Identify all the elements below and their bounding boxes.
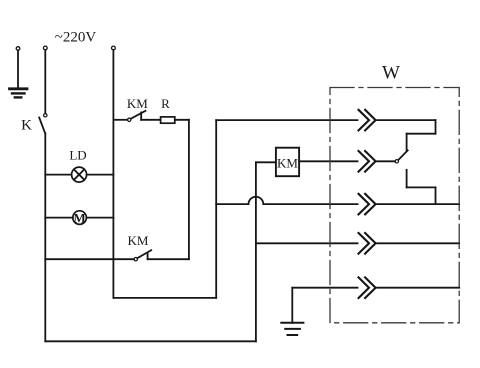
wire lamp row right — [87, 174, 114, 176]
connector arrow line3 — [359, 194, 376, 215]
wire left supply — [44, 50, 46, 114]
wire motor row right — [86, 217, 113, 219]
wire line2 left — [299, 160, 357, 162]
lamp LD — [72, 167, 87, 182]
coil KM feed corner — [255, 162, 257, 341]
wire neutral bottom run — [113, 297, 216, 299]
svg-text:R: R — [161, 96, 170, 111]
connector arrow line4 — [359, 233, 376, 254]
changeover switch in W — [395, 150, 408, 163]
wire line3 with hump — [216, 197, 357, 204]
wire line1 left — [216, 119, 357, 121]
wire left supply lower — [44, 134, 46, 342]
wire contact to R — [141, 119, 160, 121]
wire line2 right — [376, 160, 395, 162]
svg-text:K: K — [21, 118, 32, 134]
coil KM box — [276, 148, 299, 177]
svg-text:M: M — [73, 210, 85, 225]
connector arrow line1 — [359, 110, 376, 131]
svg-text:KM: KM — [127, 96, 148, 111]
ground (top-left) — [10, 47, 28, 98]
wire contact to corner — [148, 258, 189, 260]
svg-text:LD: LD — [69, 147, 86, 162]
lower throw contact — [406, 170, 408, 188]
svg-text:W: W — [382, 63, 400, 84]
W enclosure box — [330, 88, 459, 323]
terminal N — [112, 46, 116, 50]
wire line4 left — [256, 242, 358, 244]
wire motor row left — [45, 217, 73, 219]
wire line5 left — [292, 287, 357, 289]
wire line3 right — [376, 203, 460, 205]
wire R to corner — [175, 119, 189, 121]
connector arrow line2 — [359, 151, 376, 172]
wire to bottom ground — [291, 288, 293, 323]
connector arrow line5 — [359, 277, 376, 298]
svg-text:KM: KM — [277, 156, 298, 171]
wire lamp row left — [45, 174, 71, 176]
wire right supply — [112, 50, 114, 298]
wire line5 right — [376, 287, 460, 289]
motor M — [73, 210, 87, 225]
switch K — [39, 114, 47, 134]
ground (bottom) — [281, 323, 303, 335]
wire riser x216 — [215, 120, 217, 298]
wire bottom contact row — [45, 258, 134, 260]
svg-text:~220V: ~220V — [55, 30, 97, 46]
wire bottom bus — [45, 340, 256, 342]
contact KM (NO, top) — [128, 111, 146, 122]
wire line1 right — [376, 119, 436, 121]
svg-text:KM: KM — [128, 233, 149, 248]
wire line4 right — [376, 242, 460, 244]
wire line1 step down — [435, 120, 437, 134]
wire branch right vertical — [188, 120, 190, 259]
resistor R — [161, 117, 175, 123]
wire branch to KM contact — [113, 119, 127, 121]
terminal L — [43, 46, 47, 50]
contact KM (NO, bottom) — [134, 250, 151, 261]
